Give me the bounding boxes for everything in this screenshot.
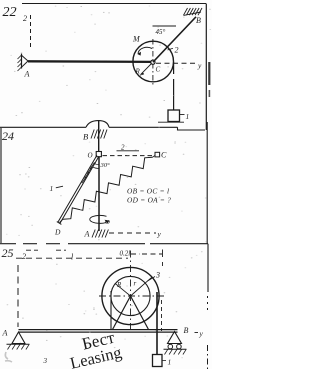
svg-text:B: B: [83, 132, 88, 142]
hinge at C: [151, 60, 155, 64]
hinge square at O: [96, 152, 101, 157]
panel 22 bottom border with ceiling bump: [0, 126, 86, 128]
30 degree angle arc and label: [92, 167, 98, 169]
wheel inner circle: [111, 276, 150, 315]
svg-text:30°: 30°: [100, 162, 111, 169]
scan blotch right edge: [208, 62, 210, 85]
svg-text:2: 2: [175, 46, 179, 55]
svg-text:M: M: [132, 35, 141, 44]
scan speckle noise: [5, 6, 210, 360]
pulley circle C (fig22): [133, 41, 174, 82]
beam AB (double line): [19, 329, 178, 331]
45 deg reference line and label: [153, 25, 177, 27]
spoke R: [115, 283, 131, 296]
panel 24/25 border (broken): [0, 243, 16, 245]
svg-text:45°: 45°: [156, 28, 166, 36]
radius R arrow and label (fig22): [140, 64, 152, 76]
svg-text:R: R: [135, 68, 141, 76]
dashed line OC: [103, 155, 155, 157]
segment OB: [98, 121, 100, 152]
support A (fig25 pin): [12, 332, 25, 344]
svg-text:22: 22: [3, 5, 17, 20]
svg-text:y: y: [199, 329, 204, 338]
svg-text:r: r: [134, 280, 137, 288]
svg-text:3: 3: [155, 271, 160, 280]
right rope to weight: [156, 292, 158, 355]
point C square (fig24): [155, 152, 160, 157]
ground hatch at A (fig24): [92, 230, 95, 238]
svg-text:0.2l: 0.2l: [120, 250, 131, 258]
svg-text:C: C: [156, 66, 161, 74]
svg-text:D: D: [54, 228, 61, 237]
dashed y axis (fig24): [109, 232, 156, 234]
shaft OA: [98, 157, 100, 231]
dashed extension above support A (fig25): [17, 265, 19, 327]
svg-text:3: 3: [43, 357, 48, 365]
svg-text:2: 2: [23, 14, 27, 23]
stand legs (A-frame): [113, 296, 131, 330]
svg-text:R: R: [116, 281, 122, 289]
weight 1 (fig22): [168, 110, 180, 122]
label 2 on rod (fig22): [168, 48, 174, 50]
svg-text:B: B: [196, 16, 201, 25]
svg-text:1: 1: [186, 112, 190, 121]
centerline horizontal (fig25): [99, 295, 166, 297]
rope from pulley to weight 1: [173, 62, 175, 110]
rod OD (double line): [58, 155, 97, 222]
svg-text:ω: ω: [105, 218, 110, 226]
svg-text:O: O: [88, 152, 93, 160]
svg-text:B: B: [184, 326, 189, 335]
svg-text:A: A: [24, 70, 30, 79]
left rope: [110, 291, 112, 330]
svg-text:2: 2: [121, 144, 125, 152]
panel 22 right border: [205, 4, 207, 131]
panel 24 left border: [0, 128, 2, 243]
svg-text:OD = OA = ?: OD = OA = ?: [127, 196, 171, 205]
spoke r: [131, 277, 153, 296]
svg-text:OB = OC = l: OB = OC = l: [127, 187, 169, 196]
weight 1 (fig25): [153, 355, 163, 367]
svg-text:y: y: [197, 61, 202, 70]
extension line right of 0.2l: [162, 250, 164, 267]
panel 25 right border: [207, 244, 209, 292]
vertical centerline through C: [152, 39, 154, 86]
panel 22 top border: [22, 3, 206, 5]
svg-text:1: 1: [50, 184, 54, 193]
support B (fig25 roller): [168, 332, 182, 344]
centerline vertical (fig25): [130, 251, 132, 331]
ceiling hatch at B (fig24): [91, 130, 94, 139]
label -y (fig25 axis): [195, 332, 199, 334]
rod hatch ticks: [90, 162, 95, 169]
spring DC (zigzag): [60, 219, 64, 222]
dashed y axis (fig22): [156, 62, 197, 64]
ceiling hatch at B (fig22): [184, 8, 188, 15]
svg-text:24: 24: [2, 129, 14, 143]
svg-text:1: 1: [168, 358, 172, 367]
panel 24 right border: [206, 122, 208, 244]
omega rotation arrow: [90, 215, 107, 223]
svg-text:C: C: [161, 151, 167, 160]
svg-text:25: 25: [2, 246, 14, 260]
support A (pin, fig22): [21, 54, 23, 69]
bar AC (rod 1): [28, 60, 153, 63]
svg-text:A: A: [84, 230, 90, 239]
watermark: [65, 327, 124, 369]
svg-text:2: 2: [22, 252, 26, 261]
svg-text:y: y: [157, 230, 162, 239]
svg-text:A: A: [2, 329, 8, 338]
wheel outer circle (fig25): [102, 267, 159, 324]
dimension l: [16, 257, 128, 259]
rod 2 at 45 deg: [153, 17, 196, 62]
